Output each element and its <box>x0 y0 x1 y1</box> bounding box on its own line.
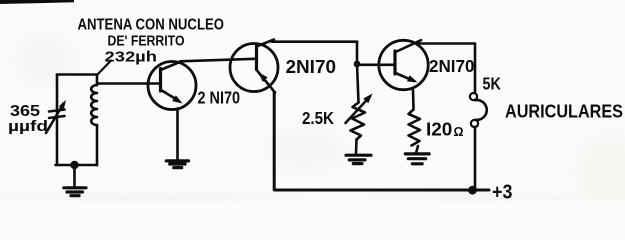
svg-text:I20: I20 <box>426 119 452 140</box>
svg-text:5K: 5K <box>483 73 502 93</box>
svg-text:2NI70: 2NI70 <box>429 56 475 76</box>
svg-text:DE' FERRITO: DE' FERRITO <box>108 32 185 49</box>
svg-text:ANTENA CON NUCLEO: ANTENA CON NUCLEO <box>78 17 225 34</box>
svg-text:AURICULARES: AURICULARES <box>505 101 623 122</box>
svg-text:365: 365 <box>10 103 40 120</box>
svg-text:Ω: Ω <box>454 125 464 139</box>
svg-text:2.5K: 2.5K <box>302 108 334 128</box>
svg-text:µµfd: µµfd <box>8 119 48 135</box>
svg-text:2NI70: 2NI70 <box>286 57 337 77</box>
svg-text:232µh: 232µh <box>105 50 158 66</box>
svg-text:+3: +3 <box>492 181 512 202</box>
svg-text:2 NI70: 2 NI70 <box>198 88 241 108</box>
